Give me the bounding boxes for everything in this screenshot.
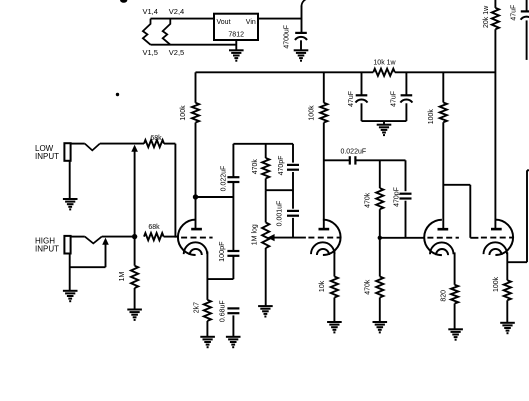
wire net1 bottom	[266, 189, 293, 191]
resistor 10k	[331, 277, 338, 298]
wire LOW tip	[71, 143, 85, 145]
ground 470k	[373, 321, 388, 323]
resistor 68k high	[144, 233, 164, 240]
resistor 68k low	[144, 140, 164, 147]
svg-text:470k: 470k	[252, 159, 259, 175]
ground 47uF pair	[377, 124, 392, 126]
svg-text:0.68uF: 0.68uF	[219, 300, 226, 322]
resistor 470k to ground	[376, 277, 383, 298]
wire heater top	[151, 18, 215, 20]
svg-text:10k: 10k	[319, 280, 326, 292]
wire wiper to grid	[274, 237, 306, 239]
switch notch LOW	[85, 144, 100, 151]
svg-text:20k 1w: 20k 1w	[483, 5, 490, 28]
capacitor 47uF right	[401, 94, 413, 96]
node plate V1a	[193, 194, 198, 199]
resistor 100k cathode B	[504, 280, 511, 300]
resistor 2k7	[204, 300, 211, 321]
svg-text:V2,4: V2,4	[169, 7, 184, 16]
wire B+ rail	[196, 71, 374, 73]
resistor 470k net1	[265, 144, 267, 158]
resistor 100k stage2	[323, 72, 325, 103]
svg-text:47uF: 47uF	[348, 91, 355, 107]
wire 47uF left drop	[361, 72, 363, 95]
resistor 470k grid A	[379, 160, 381, 188]
ground 100k cathode B	[500, 322, 515, 324]
heater chevron V2	[163, 19, 171, 45]
svg-text:1M log: 1M log	[251, 224, 258, 245]
svg-text:10k 1w: 10k 1w	[373, 60, 396, 67]
wire LOW sleeve	[69, 161, 71, 199]
stray mark (cropped text) top	[120, 0, 127, 3]
capacitor 47uF top right	[526, 0, 528, 11]
wire cathode A	[454, 252, 456, 284]
svg-text:470pF: 470pF	[278, 156, 285, 176]
svg-text:7812: 7812	[228, 32, 244, 39]
wire HIGH shorting contact	[105, 243, 107, 268]
wire plate to coupling cap	[196, 196, 234, 198]
svg-text:470pF: 470pF	[393, 187, 400, 207]
wire heater bottom	[151, 44, 237, 46]
triode V2a	[424, 220, 442, 255]
svg-text:INPUT: INPUT	[35, 244, 59, 253]
wire riser with hook	[301, 6, 303, 34]
svg-text:4700uF: 4700uF	[283, 25, 290, 49]
wire to grid A	[380, 237, 425, 239]
capacitor 0.022uF stage1	[232, 144, 234, 177]
jack LOW	[64, 143, 70, 161]
wire feedback from right	[527, 169, 529, 171]
wire B+ drop	[494, 0, 496, 8]
wire HIGH to node	[102, 236, 135, 238]
ground 0.68uF	[226, 336, 241, 338]
svg-text:0.022uF: 0.022uF	[220, 166, 227, 192]
switch notch HIGH	[85, 237, 102, 244]
capacitor 0.022uF stage2	[349, 156, 351, 164]
wire grid riser	[174, 144, 176, 238]
svg-text:INPUT: INPUT	[35, 152, 59, 161]
ground below 7812	[229, 49, 244, 51]
svg-text:47uF: 47uF	[391, 91, 398, 107]
capacitor 47uF left	[356, 94, 368, 96]
capacitor 100pF	[227, 250, 239, 252]
svg-text:68k: 68k	[148, 224, 160, 231]
svg-text:68k: 68k	[150, 135, 162, 142]
wire shorting contact	[134, 150, 136, 237]
svg-text:820: 820	[440, 290, 447, 302]
ground 1M log	[258, 305, 273, 307]
capacitor 470pF net1	[292, 144, 294, 163]
triode V1a	[178, 220, 196, 255]
capacitor 0.001uF	[287, 210, 299, 212]
svg-text:V1,5: V1,5	[143, 48, 158, 57]
svg-text:Vin: Vin	[246, 19, 256, 26]
svg-text:0.001uF: 0.001uF	[277, 201, 284, 227]
ground 2k7	[200, 336, 215, 338]
ground LOW jack	[63, 198, 78, 200]
resistor 20k 1w	[492, 8, 499, 29]
svg-text:2k7: 2k7	[193, 302, 200, 313]
wire cathode V1a	[206, 252, 208, 300]
stray dot	[116, 93, 119, 96]
wire HIGH sleeve	[69, 254, 71, 291]
svg-text:V1,4: V1,4	[143, 7, 158, 16]
ground 820	[448, 328, 463, 330]
wire HIGH tip	[71, 236, 85, 238]
svg-text:Vout: Vout	[217, 19, 231, 26]
wire treble net top	[233, 143, 293, 145]
wire cathode V1b	[333, 251, 335, 277]
svg-text:V2,5: V2,5	[169, 48, 184, 57]
jack HIGH	[64, 236, 70, 254]
ground 10k	[327, 321, 342, 323]
svg-text:1M: 1M	[119, 271, 126, 281]
capacitor 0.68uF	[227, 307, 239, 309]
resistor 820	[451, 285, 458, 304]
wire Vin to node	[258, 18, 302, 20]
wire cathode B	[506, 252, 508, 280]
wire plate branch V1b	[324, 159, 350, 161]
wire LOW to node	[100, 143, 144, 145]
ground below 4700uF	[294, 49, 309, 51]
heater chevron V1	[143, 19, 151, 45]
potentiometer 1M log	[265, 190, 267, 222]
svg-text:470k: 470k	[364, 279, 371, 295]
svg-text:100k: 100k	[180, 105, 187, 121]
svg-text:0.022uF: 0.022uF	[340, 148, 366, 155]
svg-text:47uF: 47uF	[511, 5, 518, 21]
wire coupling out	[356, 159, 406, 161]
svg-text:100pF: 100pF	[217, 241, 226, 262]
wire 47uF right drop	[405, 72, 407, 95]
svg-text:100k: 100k	[493, 276, 500, 292]
regulator U1 7812	[214, 14, 258, 40]
svg-text:470k: 470k	[364, 192, 371, 208]
triode V2b	[495, 220, 513, 255]
triode V1b	[323, 220, 341, 255]
capacitor 470pF out	[400, 193, 412, 195]
resistor 100k output A	[442, 72, 444, 102]
ground 1M	[127, 309, 142, 311]
ground HIGH jack	[63, 290, 78, 292]
svg-text:100k: 100k	[428, 109, 435, 125]
node grid A junction	[378, 236, 382, 240]
resistor 1M	[134, 237, 136, 266]
wire 7812 ground lead	[235, 40, 237, 50]
node input junction	[132, 234, 137, 239]
resistor 10k 1w	[373, 69, 395, 76]
svg-text:100k: 100k	[308, 105, 315, 121]
wire 47uF common	[362, 120, 407, 122]
wire plate A to grid B	[443, 184, 470, 186]
capacitor 4700uF	[295, 32, 307, 34]
resistor 100k stage1	[195, 72, 197, 103]
